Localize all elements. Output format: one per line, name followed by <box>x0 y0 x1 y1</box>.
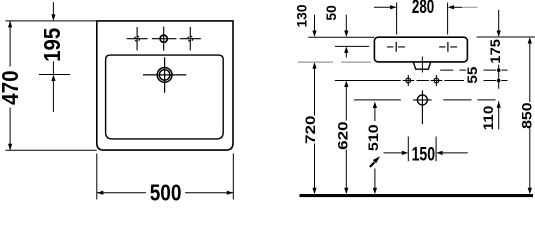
svg-text:50: 50 <box>324 5 339 21</box>
svg-text:500: 500 <box>150 179 182 202</box>
svg-text:150: 150 <box>412 143 436 165</box>
svg-text:720: 720 <box>303 116 318 145</box>
svg-text:280: 280 <box>412 0 434 18</box>
svg-text:195: 195 <box>39 28 65 62</box>
svg-text:55: 55 <box>465 66 480 84</box>
svg-text:110: 110 <box>481 106 496 131</box>
svg-text:850: 850 <box>519 102 534 129</box>
svg-text:130: 130 <box>294 5 309 28</box>
svg-text:175: 175 <box>488 39 503 64</box>
svg-text:470: 470 <box>0 70 23 105</box>
svg-text:620: 620 <box>335 121 350 150</box>
svg-text:510: 510 <box>366 124 381 151</box>
